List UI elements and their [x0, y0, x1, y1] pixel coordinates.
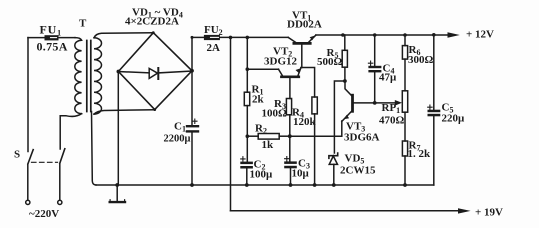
wire: input rail C1 to FU2: [192, 36, 204, 38]
transistor VT2 base bar: [281, 76, 298, 79]
fuse FU2: [204, 35, 220, 40]
node: R1/VT2 branch on input rail: [246, 36, 250, 40]
resistor R3: [286, 99, 291, 115]
label C3 plus sign: [285, 157, 289, 161]
node: C4 joins VT3 base wire: [373, 101, 377, 105]
wire: R5 lead: [344, 67, 346, 81]
wire: +19V bottom rail: [231, 210, 459, 212]
node: shield/ground tap: [115, 183, 119, 187]
svg-text:2A: 2A: [207, 42, 221, 54]
zener diode VD5 triangle: [329, 156, 337, 164]
wire: R4 to ground rail: [314, 114, 316, 185]
node: R6 on output rail: [403, 33, 407, 37]
transistor VT1 base bar: [294, 42, 310, 45]
wire: core shield to ground rail: [92, 112, 97, 186]
resistor R6: [402, 46, 407, 60]
node: R5 on output rail: [341, 33, 345, 37]
zener diode VD5 cathode bar: [329, 153, 338, 158]
wire: left top to fuse FU1: [28, 37, 45, 39]
resistor R7: [402, 141, 407, 156]
wire: VT2 base lead: [289, 78, 291, 98]
ground symbol: [116, 185, 118, 202]
svg-text:S: S: [14, 149, 20, 161]
fuse FU1: [45, 35, 59, 40]
label C5 plus sign: [428, 105, 432, 109]
bridge rectifier VD1-VD4 diamond: [118, 33, 192, 110]
wire: primary bottom to switch: [60, 114, 81, 149]
wire: VD5 to ground rail: [333, 164, 335, 185]
svg-text:1. 2k: 1. 2k: [408, 148, 432, 160]
svg-text:3DG6A: 3DG6A: [344, 132, 380, 144]
wire: VT2 collector horizontal: [247, 68, 278, 70]
potentiometer RP1: [402, 91, 407, 112]
svg-text:C1: C1: [174, 121, 186, 134]
capacitor C4: [374, 35, 376, 66]
node: VT2 collector tap: [246, 67, 250, 71]
resistor R2: [258, 134, 279, 140]
svg-text:2200μ: 2200μ: [164, 134, 191, 145]
svg-text:~220V: ~220V: [29, 208, 59, 220]
transistor VT1 emitter diagonal: [309, 35, 316, 42]
wire: node A to R2: [247, 135, 258, 137]
wire: input rail down to VT2 collector level: [246, 37, 248, 92]
capacitor C2: [240, 162, 253, 165]
node: bridge bottom vertex: [153, 108, 156, 111]
node B: R2/R3/C3/VT3-emitter junction: [288, 134, 292, 138]
svg-text:300Ω: 300Ω: [408, 54, 434, 66]
node: VD5 ground: [332, 183, 336, 187]
transistor VT3 collector diagonal: [345, 81, 352, 96]
svg-text:FU2: FU2: [204, 24, 223, 37]
svg-text:T: T: [79, 18, 87, 30]
transformer T primary winding: [75, 38, 82, 114]
svg-text:220μ: 220μ: [442, 113, 466, 125]
node: bridge top vertex: [152, 31, 155, 34]
svg-text:R2: R2: [255, 123, 267, 136]
node: C4 on output rail: [373, 33, 377, 37]
node: +19V tap on input rail: [229, 36, 233, 40]
svg-text:4×2CZD2A: 4×2CZD2A: [125, 16, 179, 28]
capacitor C3: [289, 136, 291, 161]
node: DC+ taps input wire: [191, 36, 194, 39]
node: C5 on output rail: [432, 33, 436, 37]
wire: secondary bottom to bridge bottom vertex (AC2): [94, 110, 155, 114]
label C4 plus sign: [368, 61, 372, 65]
wire: RP to R7: [404, 112, 406, 141]
label C2 plus sign: [241, 157, 245, 161]
wire: R6 to RP: [404, 59, 406, 91]
node: bridge left vertex: [117, 70, 121, 74]
svg-text:+ 12V: + 12V: [466, 29, 494, 41]
wire: +19V drop line: [230, 37, 232, 210]
wire: secondary top to bridge top vertex: [94, 33, 153, 38]
svg-text:500Ω: 500Ω: [317, 56, 343, 68]
arrow: VT3 emitter: [344, 115, 349, 120]
node: R5/VT3 collector/VD5 junction: [343, 79, 347, 83]
svg-text:DD02A: DD02A: [287, 19, 322, 31]
wire: output rail to R6: [404, 35, 406, 46]
transistor VT2 emitter diagonal: [298, 68, 301, 76]
svg-text:100μ: 100μ: [250, 169, 274, 181]
node: C2 ground: [245, 183, 249, 187]
switch S left pole: [28, 150, 33, 164]
node: C1 ground: [190, 183, 194, 187]
node: R7 ground: [403, 183, 407, 187]
wire: node B to VT3 emitter riser: [290, 121, 342, 136]
svg-text:2k: 2k: [252, 94, 265, 106]
arrow: +19V output: [458, 208, 471, 213]
wire: AC input left vertical: [27, 38, 29, 152]
wire: R3 to node B: [289, 115, 291, 136]
switch S right pole: [60, 149, 65, 163]
svg-text:120k: 120k: [293, 116, 317, 128]
resistor R4: [312, 97, 317, 114]
transistor VT3 emitter diagonal: [342, 111, 352, 122]
svg-text:10μ: 10μ: [292, 168, 310, 180]
wire: VT3 base to RP wiper: [354, 102, 399, 104]
svg-text:FU1: FU1: [40, 23, 62, 38]
node: R4 ground: [313, 183, 317, 187]
wire: R7 to ground rail: [404, 156, 406, 185]
arrow: VT2 emitter: [296, 68, 301, 73]
node A: R1/R2/C2 junction: [246, 134, 250, 138]
wire: bridge DC- down to ground rail: [117, 72, 119, 186]
capacitor C1: [191, 71, 193, 125]
wire: VT1 base lead: [301, 45, 303, 68]
capacitor C5: [433, 35, 435, 110]
resistor R5: [342, 50, 347, 67]
resistor R1: [244, 92, 249, 105]
label C1 plus sign: [193, 119, 197, 123]
arrow: RP wiper: [395, 100, 402, 106]
svg-text:100Ω: 100Ω: [262, 108, 288, 120]
wire: R2 to node B: [279, 135, 290, 137]
wire: R1 to node A: [246, 106, 248, 162]
svg-text:+ 19V: + 19V: [475, 207, 503, 219]
wire: input rail FU2 to VT1 collector: [220, 36, 288, 38]
transformer T core: [86, 41, 88, 112]
svg-text:2CW15: 2CW15: [340, 165, 376, 177]
svg-text:470Ω: 470Ω: [379, 115, 405, 127]
svg-text:0.75A: 0.75A: [37, 40, 68, 54]
wire: FU1 to transformer primary: [59, 37, 76, 39]
transistor VT3 base bar: [351, 95, 354, 111]
svg-text:3DG12: 3DG12: [264, 56, 298, 68]
arrow: +12V output: [448, 32, 460, 37]
wire: VT1 base jog to R4: [301, 68, 315, 98]
wire: collector node to VD5: [334, 81, 345, 153]
node: bridge right vertex: [190, 69, 194, 73]
wire: R5 to output rail: [344, 35, 346, 50]
transformer T secondary winding: [94, 38, 102, 114]
arrow: VT1 emitter: [310, 36, 315, 41]
bridge internal diode: [118, 72, 149, 73]
node: C3 ground: [289, 183, 293, 187]
switch S dashed link: [32, 161, 58, 163]
svg-text:1k: 1k: [262, 139, 275, 151]
wire: bridge DC+ riser to input rail: [191, 37, 193, 70]
svg-text:47μ: 47μ: [379, 72, 397, 84]
wire: ground rail: [96, 184, 434, 186]
transistor VT1 collector diagonal: [288, 37, 295, 42]
transistor VT2 collector diagonal: [279, 69, 283, 75]
wire: +12V output rail: [316, 34, 450, 36]
